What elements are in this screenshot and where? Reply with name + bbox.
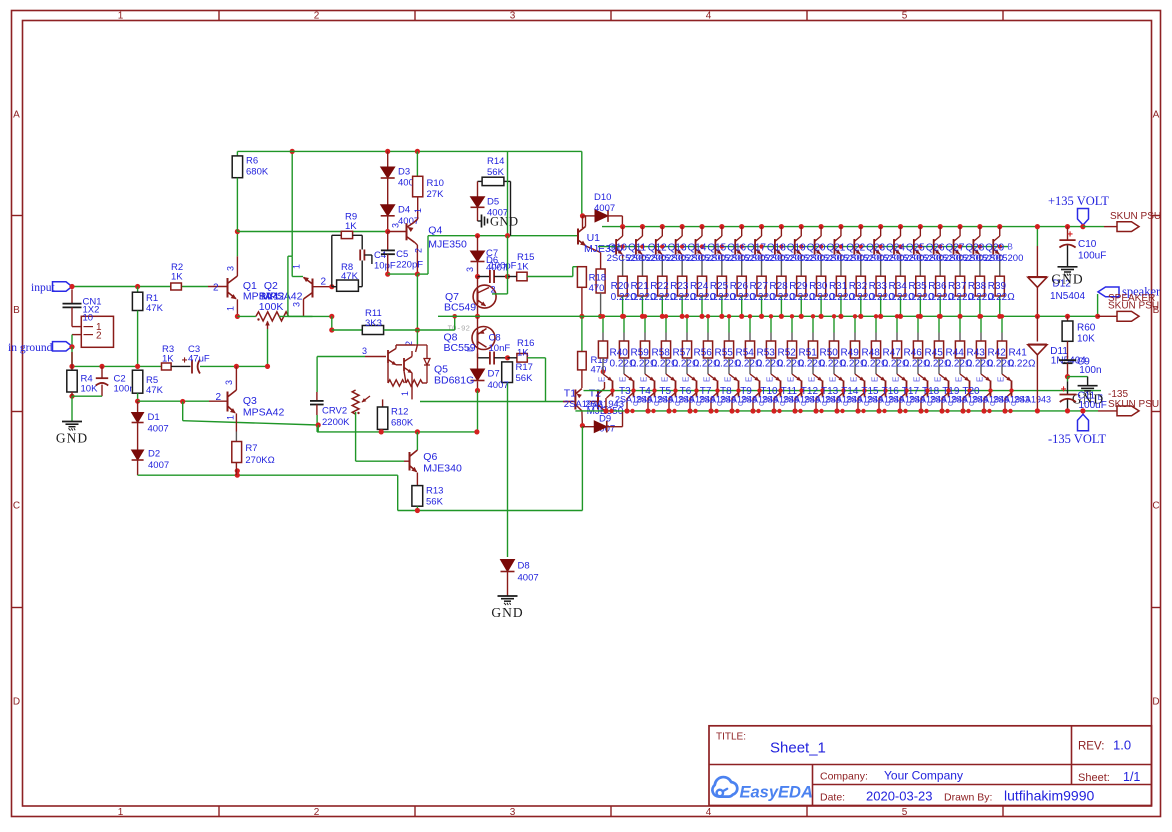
resistor R18 xyxy=(577,267,586,288)
svg-text:R32: R32 xyxy=(849,281,868,292)
svg-text:lutfihakim9990: lutfihakim9990 xyxy=(1004,788,1094,804)
resistor R49 xyxy=(833,316,835,332)
capacitor C11 xyxy=(1067,377,1069,382)
svg-text:4007: 4007 xyxy=(518,573,539,584)
wire R11 bus to mid rail xyxy=(454,316,456,330)
svg-text:2: 2 xyxy=(215,392,221,403)
resistor R45 xyxy=(917,316,919,332)
resistor R55 xyxy=(707,316,709,332)
svg-text:SKUN PSU: SKUN PSU xyxy=(1110,211,1161,222)
transistor Q2 xyxy=(312,279,314,298)
svg-text:R22: R22 xyxy=(650,281,669,292)
svg-text:GND: GND xyxy=(56,431,88,446)
frame column ticks top xyxy=(218,11,220,21)
transistor T17 xyxy=(897,374,906,381)
ground GND C9 xyxy=(1068,376,1088,378)
wire Q4 node down xyxy=(416,274,418,330)
svg-text:3: 3 xyxy=(292,302,302,307)
transistor Q28 xyxy=(977,224,982,229)
svg-text:3: 3 xyxy=(465,267,475,272)
ground flag D5 xyxy=(477,207,479,221)
transistor T9 xyxy=(729,374,738,381)
junction Q7 mid rail xyxy=(475,314,480,319)
svg-text:10K: 10K xyxy=(1077,334,1095,345)
resistor R60 xyxy=(1065,314,1070,319)
transistor Q6 xyxy=(356,460,404,462)
wire top rail xyxy=(237,150,581,152)
svg-text:27K: 27K xyxy=(427,189,445,200)
svg-text:C5: C5 xyxy=(396,249,408,260)
svg-text:C: C xyxy=(948,401,955,406)
svg-text:E: E xyxy=(829,377,838,382)
svg-text:R43: R43 xyxy=(967,348,986,359)
svg-text:R56: R56 xyxy=(694,348,713,359)
resistor R25 xyxy=(721,258,723,276)
svg-text:B: B xyxy=(13,305,20,316)
resistor R26 xyxy=(741,258,743,276)
svg-text:56K: 56K xyxy=(516,373,534,384)
svg-text:GND: GND xyxy=(490,215,519,229)
diode D6 xyxy=(477,236,479,251)
svg-text:47K: 47K xyxy=(146,303,164,314)
svg-text:47K: 47K xyxy=(146,385,164,396)
transistor T11 xyxy=(771,374,780,381)
svg-text:R27: R27 xyxy=(750,281,769,292)
svg-text:C: C xyxy=(969,401,976,406)
transistor T14 xyxy=(834,374,843,381)
svg-text:D: D xyxy=(1152,697,1159,708)
transistor T22 xyxy=(1002,374,1011,381)
wire feedback to D9 node xyxy=(581,427,583,511)
svg-text:CRV2: CRV2 xyxy=(322,406,347,417)
capacitor C2 xyxy=(101,366,103,377)
svg-text:B: B xyxy=(1008,243,1013,252)
svg-text:1/1: 1/1 xyxy=(1123,770,1140,784)
junction C5 bottom xyxy=(385,272,390,277)
frame row ticks right xyxy=(1152,215,1161,217)
svg-text:TITLE:: TITLE: xyxy=(716,732,746,743)
transistor Q20 xyxy=(819,224,824,229)
svg-text:R51: R51 xyxy=(799,348,818,359)
svg-text:2: 2 xyxy=(314,807,320,818)
wire R3 to C3 xyxy=(171,365,190,367)
svg-text:R59: R59 xyxy=(631,348,650,359)
transistor Q5 darlington BD681G xyxy=(317,356,365,358)
svg-text:Sheet:: Sheet: xyxy=(1078,772,1110,784)
diode D7 xyxy=(477,354,479,370)
svg-text:E: E xyxy=(466,347,475,352)
resistor R53 xyxy=(749,316,751,332)
wire R17 down to D8 xyxy=(507,383,509,558)
wire Q4 collector to U1 base xyxy=(417,273,428,275)
junction Q3 collector node xyxy=(234,364,239,369)
svg-text:GND: GND xyxy=(1051,272,1083,287)
resistor R16 xyxy=(517,354,527,363)
ground GND C10 xyxy=(1058,266,1078,268)
svg-text:E: E xyxy=(808,377,817,382)
trimmer RV2 xyxy=(316,357,318,393)
svg-text:R12: R12 xyxy=(391,407,408,418)
transistor Q10 xyxy=(620,224,625,229)
svg-text:0.22Ω: 0.22Ω xyxy=(988,292,1015,303)
svg-text:680K: 680K xyxy=(246,167,269,178)
resistor R54 xyxy=(728,316,730,332)
transistor T13 xyxy=(813,374,822,381)
svg-text:Q6: Q6 xyxy=(423,451,437,463)
svg-text:100pF: 100pF xyxy=(490,261,517,272)
port speaker xyxy=(1098,287,1119,297)
svg-text:47uF: 47uF xyxy=(188,354,210,365)
transistor Q27 xyxy=(957,224,962,229)
svg-text:3: 3 xyxy=(510,11,516,22)
junction D7 bottom xyxy=(475,388,480,393)
wire R12 bus xyxy=(317,431,477,433)
svg-text:R47: R47 xyxy=(883,348,902,359)
svg-text:T2: T2 xyxy=(589,388,601,400)
diode D11 xyxy=(1036,316,1038,341)
svg-text:4007: 4007 xyxy=(148,460,169,471)
junction RV1 wiper node xyxy=(265,364,270,369)
svg-text:3: 3 xyxy=(226,266,236,271)
transistor T19 xyxy=(939,374,948,381)
svg-text:EasyEDA: EasyEDA xyxy=(740,784,813,802)
svg-text:GND: GND xyxy=(491,605,523,620)
svg-text:680K: 680K xyxy=(391,418,414,429)
svg-text:100K: 100K xyxy=(259,301,284,313)
resistor R36 xyxy=(939,258,941,276)
svg-text:1: 1 xyxy=(413,208,423,213)
svg-text:R49: R49 xyxy=(841,348,860,359)
svg-text:C: C xyxy=(612,401,619,406)
resistor R57 xyxy=(665,316,667,332)
svg-text:56K: 56K xyxy=(487,167,505,178)
svg-text:R14: R14 xyxy=(487,156,504,167)
svg-text:R41: R41 xyxy=(1009,348,1028,359)
svg-text:C: C xyxy=(717,401,724,406)
transistor Q16 xyxy=(739,224,744,229)
svg-text:1: 1 xyxy=(118,807,124,818)
svg-text:2020-03-23: 2020-03-23 xyxy=(866,789,933,804)
transistor Q3 xyxy=(227,392,229,412)
resistor R52 xyxy=(770,316,772,332)
wire output bottom rail xyxy=(575,410,1083,412)
svg-text:R46: R46 xyxy=(904,348,923,359)
transistor Q1 xyxy=(227,278,229,298)
svg-text:1: 1 xyxy=(400,391,410,396)
svg-text:470: 470 xyxy=(589,283,605,294)
svg-text:3: 3 xyxy=(362,346,367,356)
wire R15 to R18 xyxy=(527,276,573,278)
svg-text:E: E xyxy=(598,377,607,382)
wire output base bus upper xyxy=(598,246,1008,248)
svg-text:A: A xyxy=(13,110,20,121)
svg-text:1K: 1K xyxy=(171,272,183,283)
svg-text:1: 1 xyxy=(226,306,236,311)
svg-text:E: E xyxy=(892,377,901,382)
transistor Q24 xyxy=(898,224,903,229)
svg-text:R45: R45 xyxy=(925,348,944,359)
wire Q3 base xyxy=(138,400,183,402)
svg-text:E: E xyxy=(745,377,754,382)
resistor R58 xyxy=(644,316,646,332)
svg-text:R52: R52 xyxy=(778,348,797,359)
svg-text:C: C xyxy=(780,401,787,406)
resistor R27 xyxy=(761,258,763,276)
svg-text:E: E xyxy=(619,377,628,382)
svg-text:D3: D3 xyxy=(398,167,410,178)
resistor R24 xyxy=(701,258,703,276)
transistor T6 xyxy=(666,374,675,381)
svg-text:10: 10 xyxy=(83,313,94,324)
svg-text:R40: R40 xyxy=(610,348,629,359)
svg-text:0.22Ω: 0.22Ω xyxy=(1009,359,1036,370)
junction D6 bottom xyxy=(475,274,480,279)
svg-text:R28: R28 xyxy=(769,281,788,292)
wire ground bus xyxy=(71,347,73,367)
junction R7 bottom xyxy=(235,468,240,473)
svg-text:5: 5 xyxy=(902,11,908,22)
svg-text:D7: D7 xyxy=(488,369,500,380)
junction Q2 base xyxy=(329,284,334,289)
port input xyxy=(53,282,73,291)
wire vcc drop x507 xyxy=(507,151,509,235)
svg-text:47K: 47K xyxy=(341,271,359,282)
transistor Q12 xyxy=(660,224,665,229)
resistor R56 xyxy=(686,316,688,332)
svg-text:E: E xyxy=(976,377,985,382)
svg-text:E: E xyxy=(955,377,964,382)
capacitor C10 xyxy=(1065,224,1070,229)
svg-text:10K: 10K xyxy=(81,384,99,395)
svg-text:3: 3 xyxy=(224,380,234,385)
resistor R43 xyxy=(959,316,961,332)
svg-text:4007: 4007 xyxy=(148,424,169,435)
svg-text:C10: C10 xyxy=(1078,239,1097,250)
svg-text:1K: 1K xyxy=(345,221,357,232)
resistor R14 xyxy=(482,177,504,185)
svg-text:R57: R57 xyxy=(673,348,692,359)
wire feedback bus lower xyxy=(398,510,583,512)
resistor R8 xyxy=(337,280,359,291)
svg-text:D10: D10 xyxy=(594,192,611,203)
svg-text:2SC5200: 2SC5200 xyxy=(984,253,1024,264)
svg-text:REV:: REV: xyxy=(1078,741,1104,753)
wire mid rail U1 base xyxy=(475,233,480,238)
resistor R29 xyxy=(800,258,802,276)
svg-text:R20: R20 xyxy=(611,281,630,292)
capacitor C7 xyxy=(478,276,490,278)
svg-text:C: C xyxy=(696,401,703,406)
wire R16 to T-row base xyxy=(527,357,545,359)
resistor R17 xyxy=(502,362,513,383)
svg-text:3: 3 xyxy=(510,807,516,818)
resistor R10 xyxy=(416,151,418,176)
svg-text:MPSA42: MPSA42 xyxy=(261,291,303,303)
junction R5 bottom xyxy=(135,399,140,404)
svg-text:E: E xyxy=(934,377,943,382)
wire output lower base bus xyxy=(584,390,1102,392)
resistor R23 xyxy=(681,258,683,276)
svg-text:E: E xyxy=(913,377,922,382)
resistor R13 xyxy=(412,486,423,507)
svg-text:E: E xyxy=(787,377,796,382)
transistor Q4 xyxy=(406,223,408,240)
svg-text:D: D xyxy=(13,697,20,708)
svg-text:MJE350: MJE350 xyxy=(428,239,467,251)
svg-text:3K3: 3K3 xyxy=(365,318,382,329)
transistor U1 xyxy=(577,229,579,245)
diode D1 xyxy=(137,401,139,412)
svg-text:10pF: 10pF xyxy=(374,261,396,272)
junction R1 top xyxy=(135,284,140,289)
svg-text:4007: 4007 xyxy=(594,203,615,214)
transistor T2 xyxy=(597,390,599,410)
svg-text:C: C xyxy=(990,401,997,406)
resistor R51 xyxy=(791,316,793,332)
svg-text:D1: D1 xyxy=(148,412,160,423)
resistor R4 xyxy=(71,352,73,370)
resistor R7 xyxy=(232,442,242,463)
svg-text:C: C xyxy=(822,401,829,406)
capacitor C8 xyxy=(477,354,479,358)
resistor R39 xyxy=(999,258,1001,276)
svg-text:D4: D4 xyxy=(398,205,410,216)
resistor R1 xyxy=(137,287,139,293)
ground GND D8 xyxy=(498,595,518,597)
frame row ticks left xyxy=(12,215,23,217)
diode D10 xyxy=(583,215,596,217)
svg-text:C: C xyxy=(759,401,766,406)
potentiometer RV1 xyxy=(256,312,289,321)
svg-text:R36: R36 xyxy=(928,281,947,292)
svg-text:C: C xyxy=(864,401,871,406)
resistor R47 xyxy=(875,316,877,332)
wire output top rail xyxy=(602,226,1083,228)
svg-text:R50: R50 xyxy=(820,348,839,359)
transistor Q15 xyxy=(719,224,724,229)
transistor Q23 xyxy=(878,224,883,229)
junction in ground xyxy=(69,344,74,349)
svg-text:C: C xyxy=(906,401,913,406)
svg-text:1K: 1K xyxy=(162,354,174,365)
svg-text:1N5404: 1N5404 xyxy=(1050,291,1085,302)
svg-text:R26: R26 xyxy=(730,281,749,292)
wire D7 junction xyxy=(477,391,479,432)
transistor T20 xyxy=(960,374,969,381)
svg-text:R42: R42 xyxy=(988,348,1007,359)
svg-text:C: C xyxy=(13,501,20,512)
svg-text:R10: R10 xyxy=(427,178,444,189)
resistor R30 xyxy=(820,258,822,276)
diode D3 xyxy=(387,151,389,167)
resistor R40 xyxy=(602,316,604,332)
svg-text:R39: R39 xyxy=(988,281,1007,292)
resistor R32 xyxy=(860,258,862,276)
wire Q5 top xyxy=(416,330,418,345)
svg-text:E: E xyxy=(850,377,859,382)
svg-text:2: 2 xyxy=(213,282,219,293)
title block border xyxy=(709,726,1152,806)
svg-text:C: C xyxy=(675,401,682,406)
svg-text:Drawn By:: Drawn By: xyxy=(944,792,992,804)
diode D9 xyxy=(581,411,584,427)
svg-text:E: E xyxy=(724,377,733,382)
svg-text:C: C xyxy=(633,401,640,406)
wire R4 C2 join xyxy=(71,392,73,396)
capacitor C5 xyxy=(387,232,389,251)
ground GND input xyxy=(71,396,73,421)
resistor R46 xyxy=(896,316,898,332)
junction D4 bottom xyxy=(385,229,390,234)
svg-text:1: 1 xyxy=(118,11,124,22)
svg-text:2: 2 xyxy=(314,11,320,22)
transistor T21 xyxy=(981,374,990,381)
svg-text:R6: R6 xyxy=(246,156,258,167)
wire C3 to RV1 wiper xyxy=(200,365,268,367)
svg-text:R48: R48 xyxy=(862,348,881,359)
junction C7 right xyxy=(505,274,510,279)
port -135 VOLT xyxy=(1078,414,1089,431)
transistor Q11 xyxy=(640,224,645,229)
svg-text:+135 VOLT: +135 VOLT xyxy=(1048,194,1109,208)
wire base rail y232 xyxy=(237,231,387,233)
svg-text:R44: R44 xyxy=(946,348,965,359)
svg-text:1K: 1K xyxy=(517,262,529,273)
transistor T1 xyxy=(574,390,576,410)
svg-text:R24: R24 xyxy=(690,281,709,292)
svg-text:R30: R30 xyxy=(809,281,828,292)
capacitor C9 xyxy=(1059,359,1076,361)
svg-text:2: 2 xyxy=(414,248,424,253)
wire Q2 collector xyxy=(303,299,305,316)
EasyEDA logo xyxy=(712,777,737,797)
svg-text:E: E xyxy=(640,377,649,382)
svg-text:Company:: Company: xyxy=(820,771,868,783)
resistor R12 xyxy=(382,399,384,407)
svg-text:D8: D8 xyxy=(518,561,530,572)
resistor R28 xyxy=(780,258,782,276)
svg-text:Date:: Date: xyxy=(820,792,845,804)
diode D4 xyxy=(387,178,389,205)
junction Q1 emitter xyxy=(235,314,240,319)
svg-text:4: 4 xyxy=(706,807,712,818)
svg-text:R23: R23 xyxy=(670,281,689,292)
transistor Q29 xyxy=(997,224,1002,229)
svg-text:R55: R55 xyxy=(715,348,734,359)
svg-text:4007: 4007 xyxy=(488,380,509,391)
diode D12 xyxy=(1036,227,1038,246)
svg-text:R13: R13 xyxy=(426,486,443,497)
svg-text:E: E xyxy=(997,377,1006,382)
svg-text:R38: R38 xyxy=(968,281,987,292)
svg-text:T1: T1 xyxy=(564,388,576,400)
svg-text:2SA1943: 2SA1943 xyxy=(1014,395,1051,405)
svg-text:R31: R31 xyxy=(829,281,848,292)
resistor R11 xyxy=(362,326,383,335)
svg-text:56K: 56K xyxy=(426,497,444,508)
svg-text:MJE340: MJE340 xyxy=(423,463,462,475)
wire input to R2 xyxy=(72,286,171,288)
svg-text:3: 3 xyxy=(391,223,401,228)
resistor R2 xyxy=(171,283,182,290)
svg-text:in ground: in ground xyxy=(8,342,53,354)
svg-text:MPSA42: MPSA42 xyxy=(243,407,285,419)
transistor Q19 xyxy=(799,224,804,229)
wire diagonal to Q3 base node xyxy=(182,402,184,421)
svg-text:2200K: 2200K xyxy=(322,417,350,428)
svg-text:C4: C4 xyxy=(374,250,386,261)
svg-text:1.0: 1.0 xyxy=(1113,738,1131,753)
